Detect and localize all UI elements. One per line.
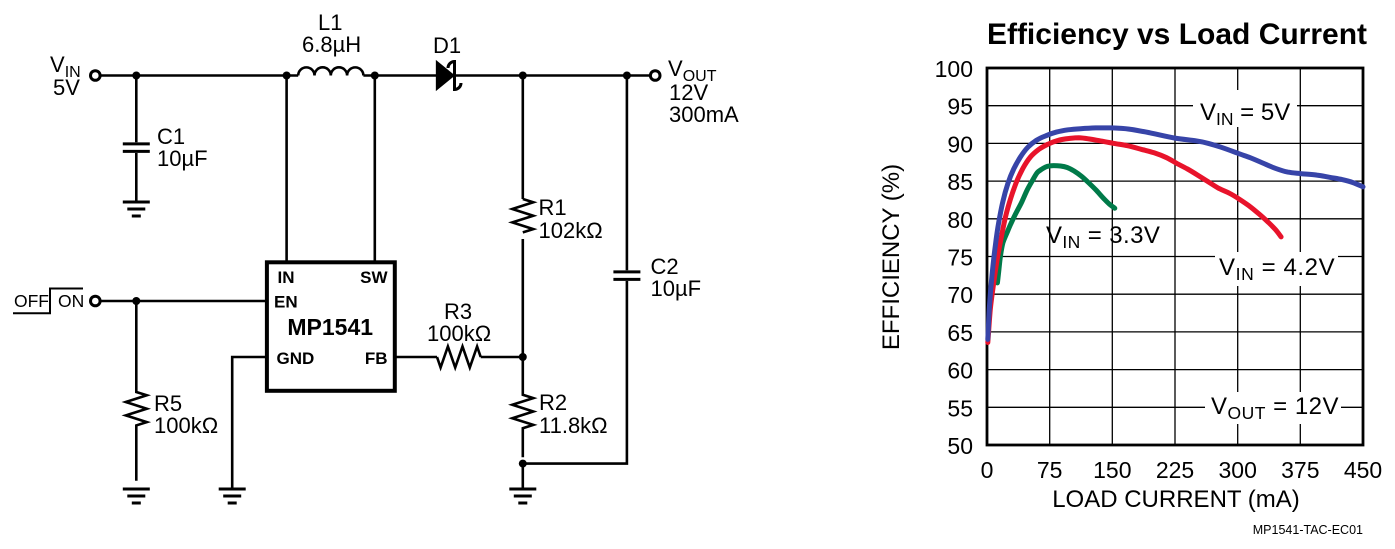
svg-text:D1: D1: [433, 33, 461, 58]
svg-text:MP1541-TAC-EC01: MP1541-TAC-EC01: [1253, 523, 1363, 537]
node dot EN-R5: [132, 297, 140, 305]
inductor L1: [298, 67, 363, 75]
svg-text:LOAD CURRENT (mA): LOAD CURRENT (mA): [1052, 486, 1300, 513]
svg-text:R1102kΩ: R1102kΩ: [539, 195, 603, 243]
node dot L1 right / SW: [371, 72, 379, 80]
svg-text:60: 60: [947, 358, 973, 384]
wire R2 node to ground: [521, 464, 524, 488]
node dot R2-C2 bottom: [519, 460, 527, 468]
wire D1 cathode to VOUT: [455, 74, 651, 77]
svg-text:VIN = 3.3V: VIN = 3.3V: [1046, 222, 1160, 252]
svg-text:55: 55: [947, 395, 973, 421]
terminal EN: [91, 296, 101, 306]
svg-text:C110µF: C110µF: [157, 124, 208, 171]
op-amp U1 MP1541 box: [267, 262, 395, 391]
wire R1 branch vertical upper: [521, 76, 524, 200]
svg-text:ON: ON: [58, 291, 84, 311]
y axis tick labels: [935, 56, 973, 459]
ground below R2: [509, 489, 536, 503]
x axis tick labels: [981, 457, 1383, 483]
chart grid: [987, 68, 1363, 445]
wire IN pin vertical: [285, 76, 288, 263]
svg-text:300: 300: [1219, 457, 1257, 483]
wire L1 to D1 anode: [363, 74, 436, 77]
svg-text:75: 75: [1037, 457, 1063, 483]
svg-text:90: 90: [947, 131, 973, 157]
svg-text:VIN = 5V: VIN = 5V: [1200, 99, 1290, 129]
svg-text:SW: SW: [360, 268, 388, 287]
svg-text:80: 80: [947, 207, 973, 233]
svg-text:75: 75: [947, 245, 973, 271]
wire C2 branch vertical upper: [626, 76, 629, 271]
svg-text:GND: GND: [277, 349, 315, 368]
node dot VOUT-C2: [623, 72, 631, 80]
capacitor C1: [123, 144, 150, 152]
svg-text:65: 65: [947, 320, 973, 346]
svg-text:0: 0: [981, 457, 994, 483]
svg-text:Efficiency vs Load Current: Efficiency vs Load Current: [987, 18, 1367, 51]
wire SW pin vertical: [373, 76, 376, 263]
svg-text:R211.8kΩ: R211.8kΩ: [539, 390, 608, 438]
ground below R5: [123, 489, 150, 503]
terminal VOUT: [650, 71, 660, 81]
OFF/ON step line: [13, 289, 83, 314]
node dot VIN-C1: [132, 72, 140, 80]
svg-text:50: 50: [947, 433, 973, 459]
blue curve VIN=5V: [988, 128, 1363, 340]
red curve VIN=4.2V: [988, 138, 1281, 343]
label box VIN 4.2V: [1215, 252, 1338, 286]
label box VOUT 12V: [1205, 392, 1341, 424]
svg-text:95: 95: [947, 94, 973, 120]
resistor R3: [437, 347, 481, 368]
svg-text:150: 150: [1093, 457, 1131, 483]
svg-text:85: 85: [947, 169, 973, 195]
node dot L1 left / IN: [283, 72, 291, 80]
resistor R2: [512, 357, 533, 457]
wire top rail VIN to L1: [101, 74, 299, 77]
wire FB pin to R3: [395, 356, 437, 359]
svg-text:R5100kΩ: R5100kΩ: [154, 391, 218, 438]
resistor R5: [126, 301, 147, 481]
svg-text:225: 225: [1156, 457, 1194, 483]
capacitor C2: [613, 272, 640, 280]
svg-text:375: 375: [1281, 457, 1319, 483]
svg-text:6.8µH: 6.8µH: [302, 32, 361, 57]
svg-text:VIN5V: VIN5V: [50, 52, 81, 100]
svg-text:EN: EN: [274, 293, 298, 312]
wire R1 to FB node: [521, 239, 524, 357]
wire C2 bottom to R2 bottom node: [523, 281, 627, 464]
svg-text:70: 70: [947, 282, 973, 308]
wire R3 to FB node: [481, 356, 523, 359]
wire EN from switch to IC: [101, 300, 267, 303]
ground below C1: [123, 202, 150, 216]
svg-text:100: 100: [935, 56, 973, 82]
svg-text:EFFICIENCY (%): EFFICIENCY (%): [878, 164, 905, 350]
node dot FB-R1-R2: [519, 353, 527, 361]
ground below GND pin: [219, 489, 246, 503]
wire C1 to ground: [135, 153, 138, 201]
svg-text:FB: FB: [365, 349, 388, 368]
svg-text:C210µF: C210µF: [651, 254, 702, 301]
label box VIN 5V: [1193, 90, 1297, 127]
wire GND pin to ground: [232, 357, 267, 488]
terminal VIN: [91, 71, 101, 81]
svg-text:IN: IN: [278, 268, 295, 287]
diode D1: [437, 62, 461, 90]
resistor R1: [512, 199, 533, 232]
svg-text:VOUT12V300mA: VOUT12V300mA: [668, 56, 739, 127]
svg-text:100kΩ: 100kΩ: [427, 321, 491, 346]
green curve VIN=3.3V: [997, 166, 1114, 283]
svg-text:450: 450: [1344, 457, 1382, 483]
node dot VOUT-R1: [519, 72, 527, 80]
svg-text:MP1541: MP1541: [287, 314, 373, 340]
chart frame: [987, 68, 1363, 445]
wire C1 branch vertical: [135, 76, 138, 143]
svg-text:OFF: OFF: [14, 291, 49, 311]
